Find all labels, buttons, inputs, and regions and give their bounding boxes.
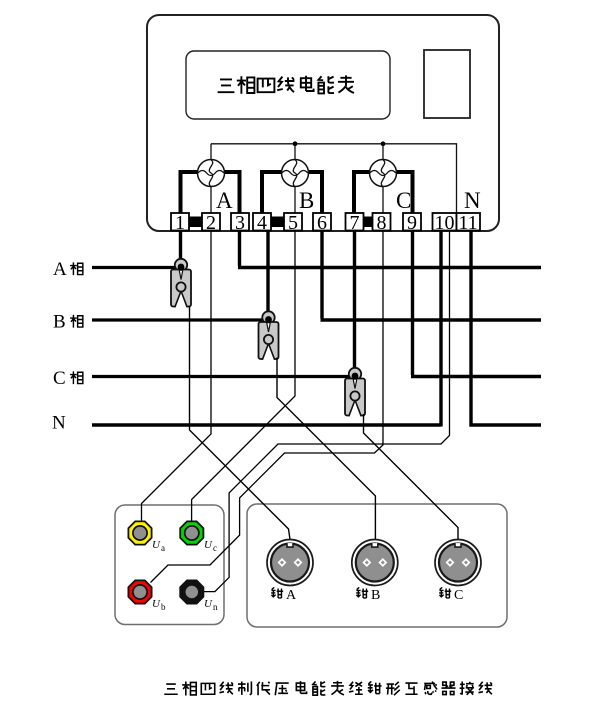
shorting link 4-5	[271, 217, 284, 228]
shorting link 1-2	[189, 217, 202, 228]
voltage element B (circle with winding)	[282, 160, 309, 187]
svg-text:B: B	[299, 188, 314, 213]
wire: terminal 7 stub to clamp C junction	[353, 231, 356, 371]
voltage plug box	[115, 505, 224, 625]
svg-text:C: C	[454, 588, 463, 603]
label element N	[464, 188, 481, 213]
terminal 6	[313, 212, 331, 234]
junction dot C voltage	[381, 141, 386, 146]
svg-text:A: A	[286, 588, 297, 603]
wire: neutral line (load side) via terminal 11	[470, 231, 542, 427]
socket 钳C	[435, 540, 481, 604]
wire: phase A current bracket (terminal 1 to 3)	[181, 172, 240, 213]
meter U1 outline (three-phase four-wire energy meter)	[147, 15, 499, 231]
wire: clamp B to socket 钳B	[277, 358, 375, 540]
clamp CT C	[345, 368, 365, 418]
socket 钳B	[352, 540, 398, 604]
meter auxiliary box	[424, 50, 470, 118]
terminal 7	[346, 212, 364, 234]
wire: clamp C to socket 钳C	[364, 414, 459, 540]
svg-text:C: C	[53, 368, 66, 389]
socket 钳A	[267, 540, 313, 604]
wire: terminal 5 voltage tap to Uc	[192, 231, 295, 522]
meter display label 三相四线电能表	[218, 75, 354, 93]
svg-text:n: n	[213, 602, 218, 612]
terminal 9	[403, 212, 421, 234]
svg-text:U: U	[152, 598, 161, 610]
wire: neutral line to terminal 10	[92, 231, 441, 427]
wire: terminal 1 stub to clamp A junction	[179, 231, 182, 263]
svg-text:C: C	[396, 188, 411, 213]
svg-text:11: 11	[458, 212, 477, 234]
plug Ua (yellow)	[128, 521, 165, 553]
svg-text:N: N	[464, 188, 481, 213]
caption 三相四线制低压电能表经钳形互感器接线	[164, 681, 492, 696]
label A相 phase A	[53, 259, 83, 280]
svg-text:N: N	[52, 413, 66, 434]
terminal 1	[171, 212, 189, 234]
terminal 4	[253, 212, 271, 234]
label element B	[299, 188, 314, 213]
wire: terminal 8 voltage tap to Ub	[151, 231, 384, 583]
svg-text:c: c	[213, 543, 217, 553]
label element C	[396, 188, 411, 213]
svg-text:U: U	[204, 539, 213, 551]
junction dot B voltage	[293, 141, 298, 146]
wire: phase B line (load side) via terminal 6	[321, 231, 542, 321]
wire: phase A line (source side)	[92, 266, 181, 269]
meter display panel	[186, 51, 390, 119]
svg-text:B: B	[371, 588, 380, 603]
plug Uc (green)	[180, 521, 217, 553]
terminal 2	[202, 212, 220, 234]
svg-text:U: U	[152, 539, 161, 551]
wire: terminal 4 stub to clamp B junction	[266, 231, 269, 315]
label N neutral	[52, 413, 66, 434]
wire: voltage coil lead A	[210, 144, 212, 213]
wire: terminal 2 voltage tap to Ua	[142, 231, 212, 522]
svg-text:U: U	[204, 598, 213, 610]
svg-text:8: 8	[377, 212, 387, 234]
clamp CT B	[259, 311, 279, 361]
clamp CT A	[171, 259, 191, 309]
wire: phase A line (load side) via terminal 3	[238, 231, 541, 268]
shorting link 7-8	[364, 217, 373, 228]
svg-text:4: 4	[257, 212, 267, 234]
svg-text:b: b	[161, 602, 166, 612]
terminal 3	[231, 212, 249, 234]
wire: phase B line (source side)	[92, 318, 269, 321]
svg-text:10: 10	[435, 212, 455, 234]
wire: phase B current bracket (terminal 4 to 6)	[262, 172, 322, 213]
plug Un (black)	[180, 580, 218, 612]
label element A	[216, 188, 233, 213]
plug Ub (red)	[128, 580, 166, 612]
svg-text:a: a	[161, 543, 165, 553]
wire: voltage coil lead B	[294, 144, 296, 213]
wire: voltage coil lead C	[382, 144, 384, 213]
voltage element A (circle with winding)	[198, 160, 225, 187]
terminal 5	[284, 212, 302, 234]
wire: terminal 10 voltage tap to Un	[204, 231, 450, 592]
terminal 10	[433, 212, 457, 234]
wire: phase C current bracket (terminal 7 to 9)	[354, 172, 413, 213]
svg-text:5: 5	[288, 212, 298, 234]
svg-text:A: A	[53, 259, 67, 280]
terminal 11	[457, 212, 481, 234]
label B相 phase B	[53, 312, 83, 333]
terminal 8	[373, 212, 391, 234]
wire: internal voltage bus (top)	[211, 144, 457, 213]
voltage element C (circle with winding)	[370, 160, 397, 187]
clamp socket box	[247, 504, 507, 627]
wire: clamp A to socket 钳A	[190, 307, 291, 540]
svg-text:B: B	[53, 312, 66, 333]
svg-text:A: A	[216, 188, 233, 213]
wire: phase C line (load side) via terminal 9	[411, 231, 541, 377]
label C相 phase C	[53, 368, 83, 389]
wire: phase C line (source side)	[92, 375, 355, 378]
